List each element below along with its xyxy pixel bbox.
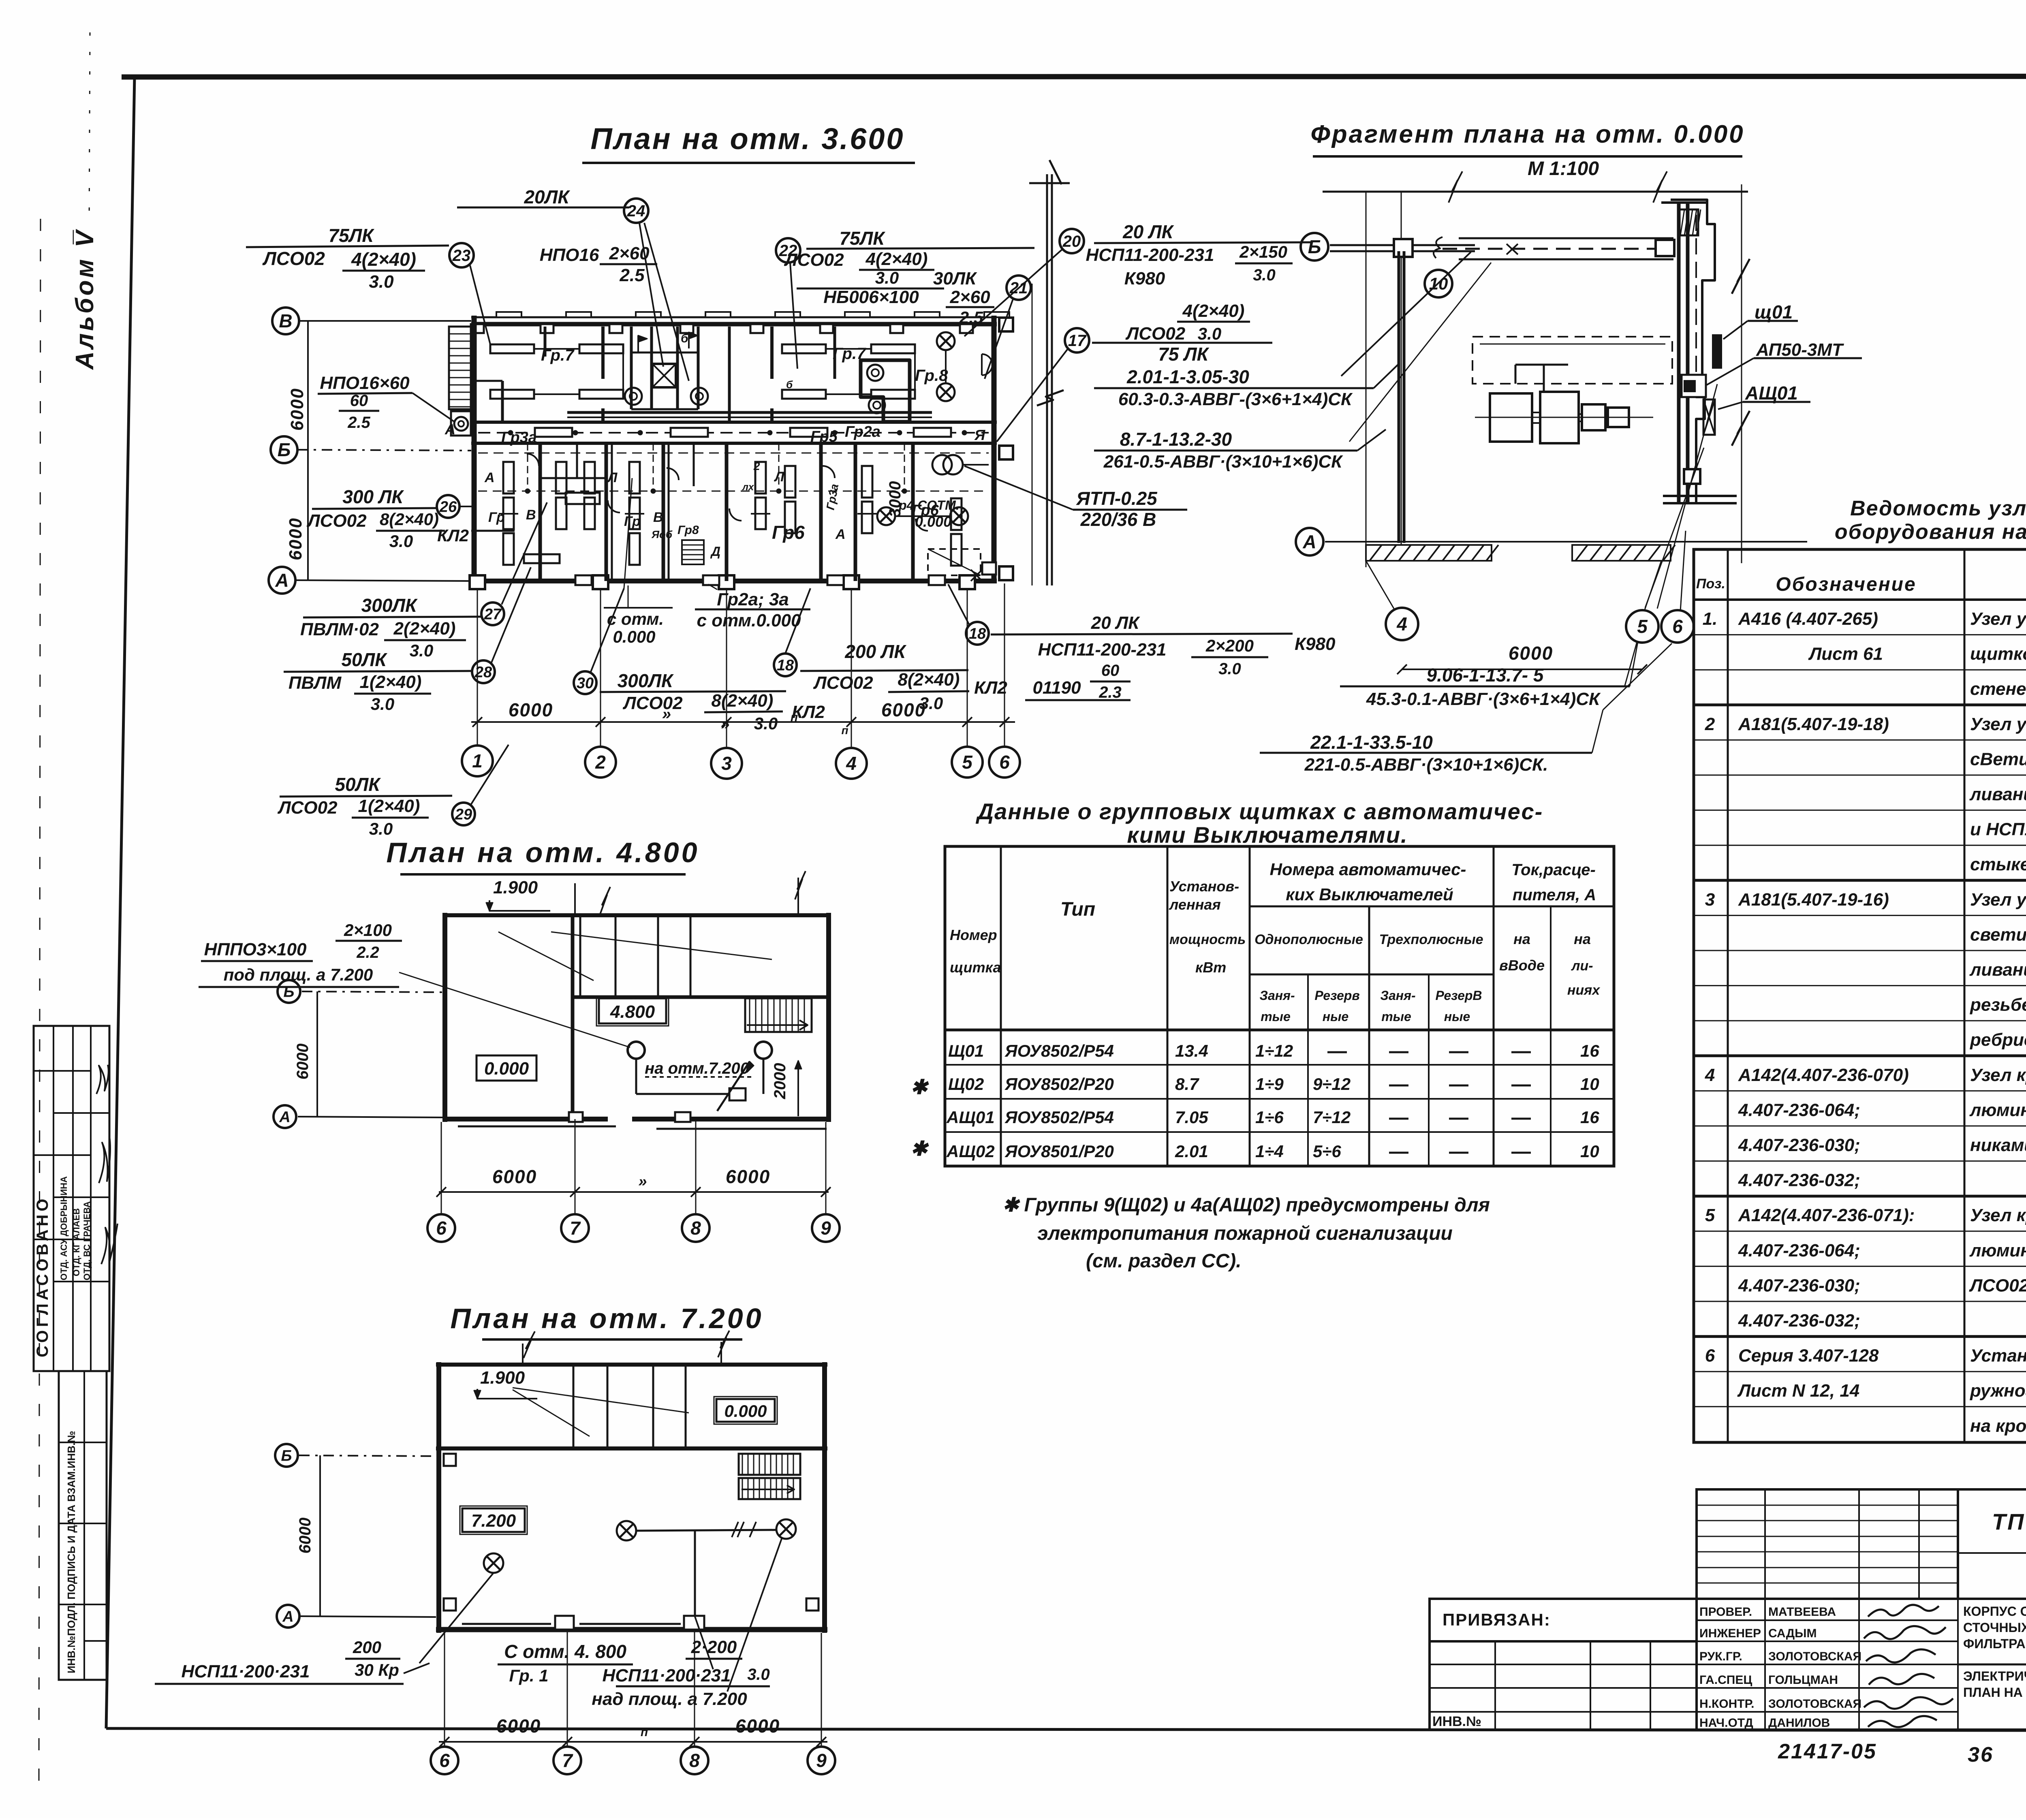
svg-text:Гр: Гр: [624, 514, 641, 529]
signature squiggles left stamp: [96, 1065, 109, 1094]
svg-text:стене: стене: [1970, 679, 2026, 699]
svg-text:9: 9: [816, 1750, 827, 1771]
plan 4800 bottom dim: [441, 1122, 442, 1215]
svg-text:НБ006×100: НБ006×100: [823, 287, 919, 307]
svg-text:под площ. а 7.200: под площ. а 7.200: [224, 965, 373, 984]
svg-text:КЛ2: КЛ2: [792, 702, 825, 722]
svg-text:Гр8: Гр8: [677, 523, 699, 537]
svg-text:Номера автоматичес-: Номера автоматичес-: [1270, 860, 1466, 879]
corridor luminaires: [535, 428, 572, 437]
fan circle left: [625, 388, 642, 405]
svg-text:ниях: ниях: [1567, 983, 1601, 998]
plan 7200 leaders to labels: [419, 1573, 494, 1663]
svg-text:Узел крепления коробов КЛ2с: Узел крепления коробов КЛ2с: [1970, 1205, 2026, 1225]
svg-text:3: 3: [1705, 890, 1715, 910]
svg-text:1(2×40): 1(2×40): [358, 796, 420, 816]
svg-text:✱: ✱: [910, 1076, 929, 1098]
svg-text:6: 6: [436, 1218, 447, 1239]
svg-text:ЛСО02: ЛСО02: [1125, 324, 1186, 344]
svg-text:9÷12: 9÷12: [1313, 1074, 1351, 1094]
grid bubble B: [271, 436, 297, 463]
Gr8 fan circle 2: [869, 397, 885, 413]
callout NPPO3 leader: [399, 972, 630, 1047]
fragment machine left box: [1490, 393, 1532, 442]
svg-text:2.5: 2.5: [347, 414, 370, 432]
plan 4800 lamp 2: [755, 1042, 772, 1059]
fragment column mid: [1398, 251, 1400, 543]
svg-text:План на отм. 3.600: План на отм. 3.600: [590, 122, 904, 156]
plan 7200 upper partitions: [573, 1365, 575, 1448]
top wall column ticks: [471, 324, 484, 333]
svg-text:СТОЧНЫХ ВОД С Б ВАКУУМ-: СТОЧНЫХ ВОД С Б ВАКУУМ-: [1963, 1620, 2026, 1635]
section line double vertical: [1046, 174, 1048, 585]
svg-text:2×100: 2×100: [344, 921, 392, 940]
wire transformer: [963, 464, 989, 466]
svg-text:М 1:100: М 1:100: [1528, 158, 1599, 179]
plan 7200 internal B wall: [436, 1446, 827, 1450]
plan 3.600 outer top wall: [471, 316, 997, 318]
svg-text:АП50-3МТ: АП50-3МТ: [1756, 340, 1844, 360]
svg-text:30 Кр: 30 Кр: [355, 1660, 399, 1679]
svg-text:4(2×40): 4(2×40): [351, 249, 416, 270]
svg-text:01190: 01190: [1032, 678, 1081, 698]
svg-text:7: 7: [562, 1750, 573, 1771]
plan 4800 upper horizontal wall: [573, 995, 829, 999]
fragment machine small box 1: [1582, 404, 1605, 430]
svg-text:18: 18: [777, 657, 794, 674]
svg-text:Гр.8: Гр.8: [915, 367, 948, 385]
svg-text:КЛ2: КЛ2: [437, 526, 469, 545]
fragment top dimension line: [1323, 191, 1748, 193]
vedomost table grid: [1694, 549, 2026, 1442]
plan 4800 door thresholds: [569, 1112, 583, 1122]
svg-text:0.000: 0.000: [915, 513, 951, 530]
plan 7200 stairs hatch: [739, 1454, 800, 1475]
callout 27 leader: [502, 502, 547, 605]
svg-text:1÷9: 1÷9: [1255, 1074, 1284, 1094]
lamp strip tick bars: [499, 513, 518, 515]
svg-text:АЩ01: АЩ01: [946, 1108, 995, 1127]
svg-text:7.200: 7.200: [471, 1511, 516, 1531]
svg-text:2.01-1-3.05-30: 2.01-1-3.05-30: [1126, 366, 1249, 387]
svg-text:НАЧ.ОТД: НАЧ.ОТД: [1699, 1716, 1753, 1730]
callout 26 leader: [459, 506, 474, 507]
svg-text:4.407-236-030;: 4.407-236-030;: [1738, 1135, 1860, 1155]
svg-text:над площ. а 7.200: над площ. а 7.200: [592, 1689, 747, 1709]
plan 7200 bottom dim: [444, 1633, 445, 1746]
leader left label: [404, 1663, 430, 1673]
plan 7200 wiring: [636, 1530, 776, 1531]
wire lamps bottom right: [895, 515, 950, 517]
svg-text:✱: ✱: [910, 1137, 929, 1160]
svg-text:НПО16×60: НПО16×60: [320, 373, 410, 393]
door block with circle left wall: [451, 411, 471, 436]
svg-text:ребристых плит: ребристых плит: [1970, 1030, 2026, 1050]
svg-text:300 ЛК: 300 ЛК: [342, 486, 404, 507]
svg-text:ЯОУ8502/Р20: ЯОУ8502/Р20: [1004, 1074, 1114, 1094]
svg-text:1.: 1.: [1703, 609, 1718, 629]
svg-text:3.0: 3.0: [754, 714, 778, 733]
svg-text:16: 16: [1580, 1108, 1599, 1127]
svg-text:27: 27: [484, 606, 502, 623]
svg-text:21417-05: 21417-05: [1778, 1740, 1877, 1763]
svg-text:6: 6: [999, 752, 1010, 773]
room partition x1905: [770, 327, 774, 379]
stamp block SOGLASOVANO: [34, 1026, 109, 1371]
sheet frame top border: [122, 76, 2026, 77]
callout 28 leader: [492, 567, 531, 662]
svg-text:9: 9: [821, 1218, 831, 1239]
svg-text:ливания НСП20-500-111 на крюке: ливания НСП20-500-111 на крюке: [1969, 784, 2026, 804]
svg-text:К980: К980: [1295, 634, 1336, 654]
svg-text:2.3: 2.3: [1098, 684, 1122, 701]
extra double partitions lower band: [611, 443, 613, 581]
flag symbol top1: [637, 335, 639, 352]
svg-text:1÷6: 1÷6: [1255, 1108, 1284, 1127]
svg-text:20 ЛК: 20 ЛК: [1091, 613, 1140, 633]
svg-text:300ЛК: 300ЛК: [361, 595, 418, 616]
svg-text:Гр6: Гр6: [772, 522, 805, 543]
plan 7200 corner squares: [444, 1598, 456, 1611]
svg-text:В: В: [653, 510, 663, 525]
svg-text:1÷4: 1÷4: [1255, 1142, 1284, 1161]
svg-text:ДАНИЛОВ: ДАНИЛОВ: [1768, 1716, 1830, 1730]
svg-text:3.0: 3.0: [389, 532, 413, 551]
fragment axis line vertical 1: [1366, 192, 1367, 567]
svg-text:10: 10: [1580, 1074, 1599, 1094]
x mark on crane dashed line: [1507, 244, 1518, 254]
svg-text:300ЛК: 300ЛК: [618, 670, 674, 691]
svg-text:1: 1: [472, 750, 483, 771]
svg-text:В: В: [526, 507, 536, 523]
stair small bottom middle: [682, 540, 704, 564]
fragment right axis line: [1741, 184, 1742, 563]
svg-text:ЯОУ8502/Р54: ЯОУ8502/Р54: [1004, 1108, 1114, 1127]
svg-text:б: б: [786, 378, 793, 391]
svg-text:Фрагмент плана на отм. 0.000: Фрагмент плана на отм. 0.000: [1310, 120, 1744, 148]
leader 22.1: [1592, 710, 1603, 753]
svg-text:3.0: 3.0: [919, 694, 943, 713]
svg-text:Щ01: Щ01: [948, 1041, 984, 1060]
svg-text:0.000: 0.000: [484, 1059, 529, 1079]
stair outside left wall: [449, 327, 471, 409]
fragment wall lower protrusion: [1684, 469, 1700, 484]
leader JaTP: [964, 466, 1073, 510]
svg-text:НППО3×100: НППО3×100: [204, 940, 307, 959]
svg-text:Лист N 12, 14: Лист N 12, 14: [1737, 1381, 1859, 1401]
svg-text:Поз.: Поз.: [1696, 576, 1725, 592]
svg-text:1÷12: 1÷12: [1255, 1041, 1293, 1060]
svg-text:КЛ2: КЛ2: [974, 678, 1007, 698]
svg-text:ОТД. ВС ГРАЧЕВА: ОТД. ВС ГРАЧЕВА: [82, 1201, 92, 1280]
svg-text:стыке ребристых плит.: стыке ребристых плит.: [1970, 854, 2026, 874]
svg-text:КОРПУС ОБЕЗВОЖИВАНИЯ ОСАДКА: КОРПУС ОБЕЗВОЖИВАНИЯ ОСАДКА: [1963, 1604, 2026, 1619]
svg-text:и НСП11-200-234на крюке, В: и НСП11-200-234на крюке, В: [1970, 820, 2026, 840]
svg-text:1.900: 1.900: [493, 878, 538, 897]
callout 18 bottom circle: [774, 654, 797, 676]
bottom dimension line plan 3.600: [471, 721, 1015, 723]
svg-text:3.0: 3.0: [747, 1666, 770, 1683]
svg-text:2×150: 2×150: [1239, 242, 1287, 261]
svg-text:4.407-236-064;: 4.407-236-064;: [1738, 1100, 1860, 1120]
svg-text:ливания НСП11-200-234 на: ливания НСП11-200-234 на: [1969, 960, 2026, 980]
svg-text:ПЛАН НА ОТМ. 3.600, 4.800;: ПЛАН НА ОТМ. 3.600, 4.800;: [1963, 1685, 2026, 1700]
section line top tick: [1029, 182, 1070, 184]
label 0.000 boxed: [477, 1055, 536, 1081]
plan 3.600 left wall: [472, 316, 477, 583]
paper edge dashes left: [39, 219, 41, 1783]
svg-text:6000: 6000: [509, 699, 553, 720]
svg-text:Лист 61: Лист 61: [1808, 644, 1883, 664]
svg-text:тые: тые: [1261, 1009, 1291, 1024]
svg-text:Я: Я: [974, 427, 985, 443]
callout 23 circle: [449, 243, 474, 267]
callout 18 right circle: [966, 622, 989, 645]
svg-text:5: 5: [962, 752, 973, 773]
svg-text:А416 (4.407-265): А416 (4.407-265): [1738, 609, 1878, 629]
callout 30 leader: [591, 588, 624, 672]
svg-text:3.0: 3.0: [1198, 324, 1221, 343]
svg-text:ПВЛМ: ПВЛМ: [289, 673, 342, 693]
signature squiggles main stamp: [1868, 1605, 1939, 1617]
svg-text:АЩ02: АЩ02: [946, 1142, 995, 1161]
svg-text:8(2×40): 8(2×40): [712, 691, 774, 711]
callout 22 leader: [790, 263, 797, 369]
plan 4800 bottom inner ledge: [458, 1126, 616, 1128]
plan 3.600 bottom wall: [471, 579, 997, 583]
svg-text:ружного освещения РКУ01-250-00: ружного освещения РКУ01-250-009: [1970, 1381, 2026, 1401]
grid line 6 vertical thin: [1032, 284, 1033, 585]
svg-text:люминисцентными светиль-: люминисцентными светиль-: [1969, 1100, 2026, 1120]
svg-text:К980: К980: [1124, 269, 1165, 288]
svg-text:75ЛК: 75ЛК: [328, 225, 374, 246]
svg-text:4.407-236-064;: 4.407-236-064;: [1738, 1241, 1860, 1260]
plan 7200 left dim: [319, 1455, 321, 1616]
svg-text:НСП11·200·231: НСП11·200·231: [181, 1662, 310, 1681]
svg-text:3.0: 3.0: [1253, 266, 1276, 284]
dashed circuit line lower rooms: [478, 491, 989, 492]
stamp block inventory strip: [59, 1371, 107, 1680]
plan 7200 bubbles 6-9: [431, 1747, 458, 1774]
grid bubble A: [269, 567, 295, 594]
plan 7200 lamp right: [776, 1519, 796, 1539]
plan 4800 outer walls: [442, 913, 447, 1122]
svg-text:ЯТП-0.25: ЯТП-0.25: [1076, 488, 1158, 509]
svg-text:ПРОВЕР.: ПРОВЕР.: [1699, 1605, 1752, 1619]
svg-text:(см. раздел СС).: (см. раздел СС).: [1086, 1250, 1242, 1272]
svg-text:6000: 6000: [735, 1715, 780, 1737]
svg-text:17: 17: [1068, 332, 1087, 350]
svg-text:16: 16: [1580, 1041, 1599, 1060]
svg-text:резьбе под перекрытием из: резьбе под перекрытием из: [1970, 995, 2026, 1015]
svg-text:Н.КОНТР.: Н.КОНТР.: [1699, 1697, 1754, 1711]
plan 4800 left dim line: [316, 991, 318, 1117]
svg-text:7.05: 7.05: [1175, 1108, 1208, 1127]
Gr8 fan circle 1: [867, 365, 883, 381]
svg-text:261-0.5-АВВГ·(3×10+1×6)СК: 261-0.5-АВВГ·(3×10+1×6)СК: [1103, 452, 1343, 472]
svg-text:План на отм. 4.800: План на отм. 4.800: [386, 837, 699, 868]
fragment machine middle box: [1540, 392, 1579, 443]
svg-text:ИНВ.№ПОДЛ. ПОДПИСЬ И ДАТА ВЗАМ: ИНВ.№ПОДЛ. ПОДПИСЬ И ДАТА ВЗАМ.ИНВ.№: [65, 1431, 77, 1673]
svg-text:на отм.7.200: на отм.7.200: [645, 1060, 749, 1077]
privyazan lower grid: [1430, 1641, 1697, 1730]
svg-text:4.407-236-030;: 4.407-236-030;: [1738, 1275, 1860, 1295]
svg-text:Гр5: Гр5: [810, 428, 838, 445]
plan 7200 outer walls: [436, 1362, 441, 1633]
svg-text:13.4: 13.4: [1175, 1041, 1208, 1060]
svg-text:Узел крепления коробоВ КЛ1с: Узел крепления коробоВ КЛ1с: [1970, 1065, 2026, 1085]
svg-text:✱ Группы 9(Щ02) и 4а(АЩ02) пре: ✱ Группы 9(Щ02) и 4а(АЩ02) предусмотрены…: [1002, 1194, 1490, 1216]
central equipment shafts: [630, 327, 633, 409]
svg-text:Данные о групповых щитках с ав: Данные о групповых щитках с автоматичес-: [976, 799, 1543, 824]
svg-text:А: А: [1302, 531, 1316, 552]
plan 7200 axis lines: [299, 1455, 436, 1456]
svg-text:ГА.СПЕЦ: ГА.СПЕЦ: [1699, 1673, 1752, 1687]
svg-text:10: 10: [1580, 1142, 1599, 1161]
svg-text:60.3-0.3-АВВГ-(3×6+1×4)СК: 60.3-0.3-АВВГ-(3×6+1×4)СК: [1118, 389, 1353, 409]
svg-text:СОГЛАСОВАНО: СОГЛАСОВАНО: [34, 1196, 51, 1357]
svg-text:ЗОЛОТОВСКАЯ: ЗОЛОТОВСКАЯ: [1768, 1650, 1861, 1663]
fragment wall outer contour: [1671, 200, 1715, 502]
device AP50-3MT white box: [1682, 375, 1706, 397]
svg-text:8.7-1-13.2-30: 8.7-1-13.2-30: [1120, 429, 1232, 450]
svg-text:200 ЛК: 200 ЛК: [844, 641, 906, 662]
svg-text:Установ-: Установ-: [1169, 878, 1239, 895]
title block upper right box: [1958, 1489, 2026, 1599]
shelf line upper rooms: [567, 411, 932, 414]
svg-text:4.800: 4.800: [610, 1002, 655, 1022]
svg-text:4: 4: [846, 753, 857, 774]
svg-text:ТП 902-5-36.86: ТП 902-5-36.86: [1992, 1509, 2026, 1534]
svg-text:3.0: 3.0: [369, 272, 394, 292]
svg-text:Ток,расце-: Ток,расце-: [1511, 861, 1596, 879]
svg-text:221-0.5-АВВГ·(3×10+1×6)СК.: 221-0.5-АВВГ·(3×10+1×6)СК.: [1304, 755, 1548, 775]
svg-text:2(2×40): 2(2×40): [393, 619, 456, 639]
svg-text:Обозначение: Обозначение: [1776, 574, 1916, 595]
callout 18 bottom leader: [785, 588, 810, 654]
leader 9.06: [1630, 642, 1638, 686]
callout 18 right leader: [948, 584, 969, 625]
svg-text:Узел установки одиночного: Узел установки одиночного: [1970, 890, 2026, 910]
svg-text:8: 8: [689, 1750, 700, 1771]
leader 8.7 block: [1357, 429, 1386, 451]
arrow to lamp2: [717, 1062, 750, 1111]
svg-text:50ЛК: 50ЛК: [335, 774, 381, 795]
svg-text:ли-: ли-: [1571, 958, 1593, 974]
svg-text:6000: 6000: [287, 388, 307, 431]
fragment grid bubble A: [1296, 528, 1323, 555]
circle 10 callout: [1425, 270, 1452, 297]
Gr7 room 1 luminaires: [490, 344, 534, 353]
svg-text:ЯОУ8501/Р20: ЯОУ8501/Р20: [1004, 1142, 1114, 1161]
svg-text:Гр3а: Гр3а: [501, 429, 537, 446]
label 7.200 boxed: [462, 1508, 525, 1532]
plan 4800 bubbles 6-9: [427, 1214, 455, 1242]
svg-text:ких Выключателей: ких Выключателей: [1286, 885, 1453, 904]
svg-text:МАТВЕЕВА: МАТВЕЕВА: [1768, 1605, 1836, 1619]
plan 4800 top section marks: [574, 883, 576, 915]
main stamp verticals: [1764, 1599, 1766, 1730]
svg-text:А: А: [279, 1109, 290, 1126]
svg-text:Гр2а: Гр2а: [845, 423, 880, 440]
callout 17 leader: [997, 348, 1068, 442]
svg-text:ЛСО02: ЛСО02: [262, 248, 325, 269]
svg-text:НПО16: НПО16: [540, 245, 599, 265]
svg-text:6: 6: [1705, 1346, 1715, 1366]
svg-text:50ЛК: 50ЛК: [341, 649, 387, 670]
svg-text:сВетильника с лампой нака-: сВетильника с лампой нака-: [1970, 749, 2026, 769]
room partitions lower band: [539, 443, 542, 581]
zigzag break on section line: [1037, 390, 1064, 406]
callout 27 circle: [481, 602, 504, 625]
svg-text:26: 26: [439, 498, 457, 515]
lamp bottom right room 1: [877, 507, 895, 525]
fragment bottom wall right: [1663, 495, 1737, 497]
fragment hatched wall column: [1679, 209, 1698, 235]
svg-text:1.900: 1.900: [480, 1368, 525, 1388]
svg-text:3: 3: [721, 753, 732, 774]
svg-text:Гр2а; 3а: Гр2а; 3а: [717, 590, 789, 609]
fragment machine connectors: [1532, 412, 1540, 423]
svg-text:ЛСО02 (2×40): ЛСО02 (2×40): [1969, 1275, 2026, 1295]
svg-text:5÷6: 5÷6: [1313, 1142, 1341, 1161]
svg-text:20ЛК: 20ЛК: [524, 186, 570, 207]
left dimension line 6000/6000: [307, 321, 309, 580]
svg-text:6000: 6000: [1509, 643, 1553, 664]
room small partitions detail: [540, 477, 606, 479]
svg-text:18: 18: [969, 625, 986, 642]
svg-text:ные: ные: [1444, 1009, 1470, 1024]
svg-text:тые: тые: [1381, 1009, 1411, 1024]
Gr8 room loop: [861, 360, 910, 422]
leader circle5 to 9.06 line: [1625, 642, 1637, 686]
svg-text:В: В: [279, 310, 292, 331]
privyazan box: [1430, 1599, 1697, 1641]
svg-text:2000: 2000: [771, 1063, 789, 1100]
bottom axis bubbles 1-6: [462, 746, 493, 776]
svg-text:Б: Б: [278, 439, 291, 460]
corridor upper wall: [471, 421, 997, 424]
svg-text:щ01: щ01: [1755, 301, 1793, 323]
svg-text:Гр. 1: Гр. 1: [509, 1666, 548, 1685]
plan 7200 lamp left: [484, 1553, 503, 1573]
svg-text:6000: 6000: [496, 1715, 541, 1737]
svg-text:мощность: мощность: [1169, 932, 1246, 947]
corridor lower wall: [471, 442, 997, 445]
svg-text:САДЫМ: САДЫМ: [1768, 1627, 1817, 1640]
svg-text:24: 24: [627, 202, 645, 220]
svg-text:Узел установки осВетительных: Узел установки осВетительных: [1970, 609, 2026, 629]
extra partitions upper band: [544, 327, 547, 357]
svg-text:оборудования на плане располо: оборудования на плане расположения: [1835, 520, 2026, 544]
svg-text:с отм.: с отм.: [607, 609, 664, 628]
plan 4800 wiring: [635, 1059, 637, 1094]
svg-text:ИНВ.№: ИНВ.№: [1432, 1714, 1481, 1729]
grid bubble V: [272, 308, 299, 334]
plan 7200 grid bubble B: [275, 1444, 298, 1467]
svg-text:на кронштейне К-П.: на кронштейне К-П.: [1970, 1416, 2026, 1436]
svg-text:2.5: 2.5: [619, 265, 645, 285]
svg-text:7: 7: [570, 1218, 581, 1239]
svg-text:2.01: 2.01: [1175, 1142, 1208, 1161]
svg-text:б: б: [681, 332, 689, 345]
svg-text:30ЛК: 30ЛК: [933, 269, 977, 288]
svg-text:3.0: 3.0: [875, 268, 899, 287]
svg-text:пителя, А: пителя, А: [1513, 886, 1596, 904]
plan 4800 internal wall vertical: [571, 915, 575, 1119]
dannye dash cells: [1389, 1051, 1408, 1053]
plan 7200 top section marks: [522, 1344, 524, 1365]
